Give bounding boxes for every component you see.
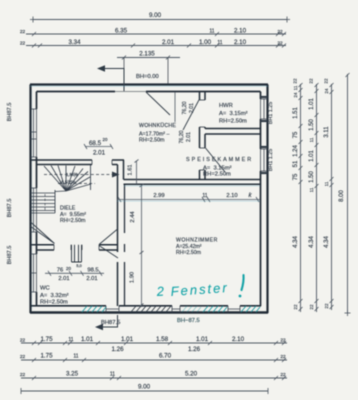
svg-text:RH=2.50m: RH=2.50m — [203, 172, 231, 178]
svg-text:BH87.5: BH87.5 — [7, 246, 13, 265]
svg-text:11: 11 — [309, 137, 314, 142]
svg-text:2.10: 2.10 — [234, 39, 247, 46]
svg-text:4.34: 4.34 — [309, 236, 315, 248]
svg-text:22: 22 — [20, 29, 26, 35]
svg-text:1.01: 1.01 — [196, 336, 209, 343]
svg-text:22: 22 — [20, 354, 26, 360]
svg-text:A= 3.15m²: A= 3.15m² — [219, 111, 248, 117]
svg-text:4.34: 4.34 — [293, 236, 299, 248]
svg-text:9.00: 9.00 — [138, 384, 151, 391]
svg-text:DIELE: DIELE — [60, 206, 76, 212]
svg-text:HWR: HWR — [219, 103, 233, 109]
svg-text:SPEISEKAMMER: SPEISEKAMMER — [186, 157, 253, 163]
svg-text:WOHNKÜCHE: WOHNKÜCHE — [139, 122, 176, 129]
svg-text:8.00: 8.00 — [339, 190, 345, 202]
svg-text:11: 11 — [202, 193, 207, 199]
svg-text:22: 22 — [280, 372, 286, 378]
svg-text:75: 75 — [293, 173, 299, 180]
svg-text:2.44: 2.44 — [130, 211, 136, 223]
svg-text:1.50: 1.50 — [309, 171, 315, 183]
svg-text:2.01: 2.01 — [58, 276, 69, 282]
svg-text:RH=2.50m: RH=2.50m — [40, 300, 68, 306]
svg-text:20: 20 — [103, 137, 108, 142]
svg-text:1.01: 1.01 — [121, 336, 134, 343]
svg-text:2.99: 2.99 — [153, 193, 164, 199]
svg-text:22: 22 — [20, 41, 26, 47]
svg-text:BH=0.00: BH=0.00 — [136, 74, 159, 80]
svg-text:11: 11 — [209, 29, 214, 35]
svg-text:24: 24 — [293, 92, 298, 98]
svg-text:1.75: 1.75 — [40, 353, 53, 360]
svg-text:22: 22 — [309, 304, 314, 310]
svg-text:11: 11 — [324, 181, 329, 186]
svg-text:BH87.5: BH87.5 — [7, 199, 13, 218]
svg-text:11: 11 — [217, 40, 222, 46]
svg-text:A= 3.32m²: A= 3.32m² — [40, 293, 69, 299]
svg-text:1.58: 1.58 — [156, 336, 169, 343]
svg-text:5,0: 5,0 — [76, 263, 82, 268]
svg-text:RH=2.50m: RH=2.50m — [139, 138, 165, 144]
svg-text:24: 24 — [324, 88, 329, 94]
svg-text:2.01: 2.01 — [93, 150, 106, 157]
svg-text:BH87.5: BH87.5 — [101, 320, 120, 326]
svg-text:1.01: 1.01 — [309, 98, 315, 110]
svg-text:22: 22 — [324, 78, 329, 84]
svg-text:2.10: 2.10 — [232, 336, 245, 343]
svg-text:2.10: 2.10 — [234, 28, 247, 35]
svg-text:BH−87.5: BH−87.5 — [177, 318, 200, 324]
svg-text:22: 22 — [277, 29, 283, 35]
svg-text:22: 22 — [309, 78, 314, 84]
svg-text:11: 11 — [73, 354, 78, 360]
svg-text:6.70: 6.70 — [159, 353, 172, 360]
svg-text:1.01: 1.01 — [81, 336, 94, 343]
svg-text:11: 11 — [293, 85, 298, 90]
svg-text:75: 75 — [293, 131, 299, 138]
svg-text:1.24: 1.24 — [293, 145, 299, 157]
svg-text:2.01: 2.01 — [162, 39, 175, 46]
svg-text:A= 9.55m²: A= 9.55m² — [60, 212, 86, 218]
svg-text:68.5: 68.5 — [89, 140, 102, 147]
svg-text:51: 51 — [293, 160, 299, 167]
svg-text:2.01: 2.01 — [86, 276, 97, 282]
svg-text:2.01: 2.01 — [186, 132, 192, 142]
svg-text:BH1 1.25: BH1 1.25 — [268, 149, 274, 171]
svg-text:76: 76 — [57, 268, 63, 274]
svg-text:BH87.5: BH87.5 — [7, 103, 13, 122]
svg-text:1.01: 1.01 — [309, 150, 315, 162]
svg-text:11: 11 — [309, 187, 314, 192]
svg-text:WOHNZIMMER: WOHNZIMMER — [176, 238, 218, 244]
svg-text:3.34: 3.34 — [68, 39, 81, 46]
svg-text:5.20: 5.20 — [185, 371, 198, 378]
svg-text:22: 22 — [20, 372, 26, 378]
svg-text:RH=2.50m: RH=2.50m — [219, 119, 247, 125]
svg-text:1.26: 1.26 — [188, 346, 201, 353]
svg-text:22: 22 — [293, 304, 298, 310]
svg-text:1.00: 1.00 — [199, 39, 212, 46]
svg-text:RH=2.50m: RH=2.50m — [60, 218, 86, 224]
svg-text:22: 22 — [277, 41, 283, 47]
svg-text:76,20: 76,20 — [182, 101, 188, 114]
svg-text:11: 11 — [110, 372, 115, 378]
svg-text:BH1 1.25: BH1 1.25 — [268, 102, 274, 124]
svg-text:98.5: 98.5 — [87, 268, 98, 274]
svg-text:76,20: 76,20 — [179, 130, 185, 143]
svg-text:22: 22 — [280, 354, 286, 360]
svg-text:RH=2.50m: RH=2.50m — [176, 250, 201, 256]
svg-text:2.135: 2.135 — [139, 51, 155, 58]
svg-text:1.90: 1.90 — [130, 272, 136, 283]
svg-text:4.34: 4.34 — [324, 236, 330, 248]
svg-text:11: 11 — [68, 337, 73, 343]
svg-text:1.26: 1.26 — [111, 346, 124, 353]
svg-text:3.25: 3.25 — [66, 371, 79, 378]
svg-text:2.10: 2.10 — [226, 193, 237, 199]
svg-text:1.50: 1.50 — [309, 119, 315, 131]
svg-text:18,5/25e: 18,5/25e — [59, 180, 76, 185]
svg-text:22: 22 — [280, 338, 286, 344]
svg-text:2.01: 2.01 — [189, 103, 195, 113]
svg-text:1,96|0: 1,96|0 — [66, 172, 78, 177]
svg-text:1.51: 1.51 — [293, 107, 299, 119]
svg-text:22: 22 — [293, 78, 298, 84]
svg-text:9.00: 9.00 — [149, 12, 162, 19]
svg-text:1.61: 1.61 — [128, 164, 134, 175]
svg-text:3.11: 3.11 — [324, 126, 330, 138]
svg-text:WC: WC — [40, 286, 50, 292]
svg-text:20: 20 — [66, 266, 71, 271]
svg-text:1.75: 1.75 — [40, 336, 53, 343]
svg-text:22: 22 — [20, 338, 26, 344]
svg-text:6.35: 6.35 — [115, 28, 128, 35]
svg-text:22: 22 — [324, 303, 329, 309]
